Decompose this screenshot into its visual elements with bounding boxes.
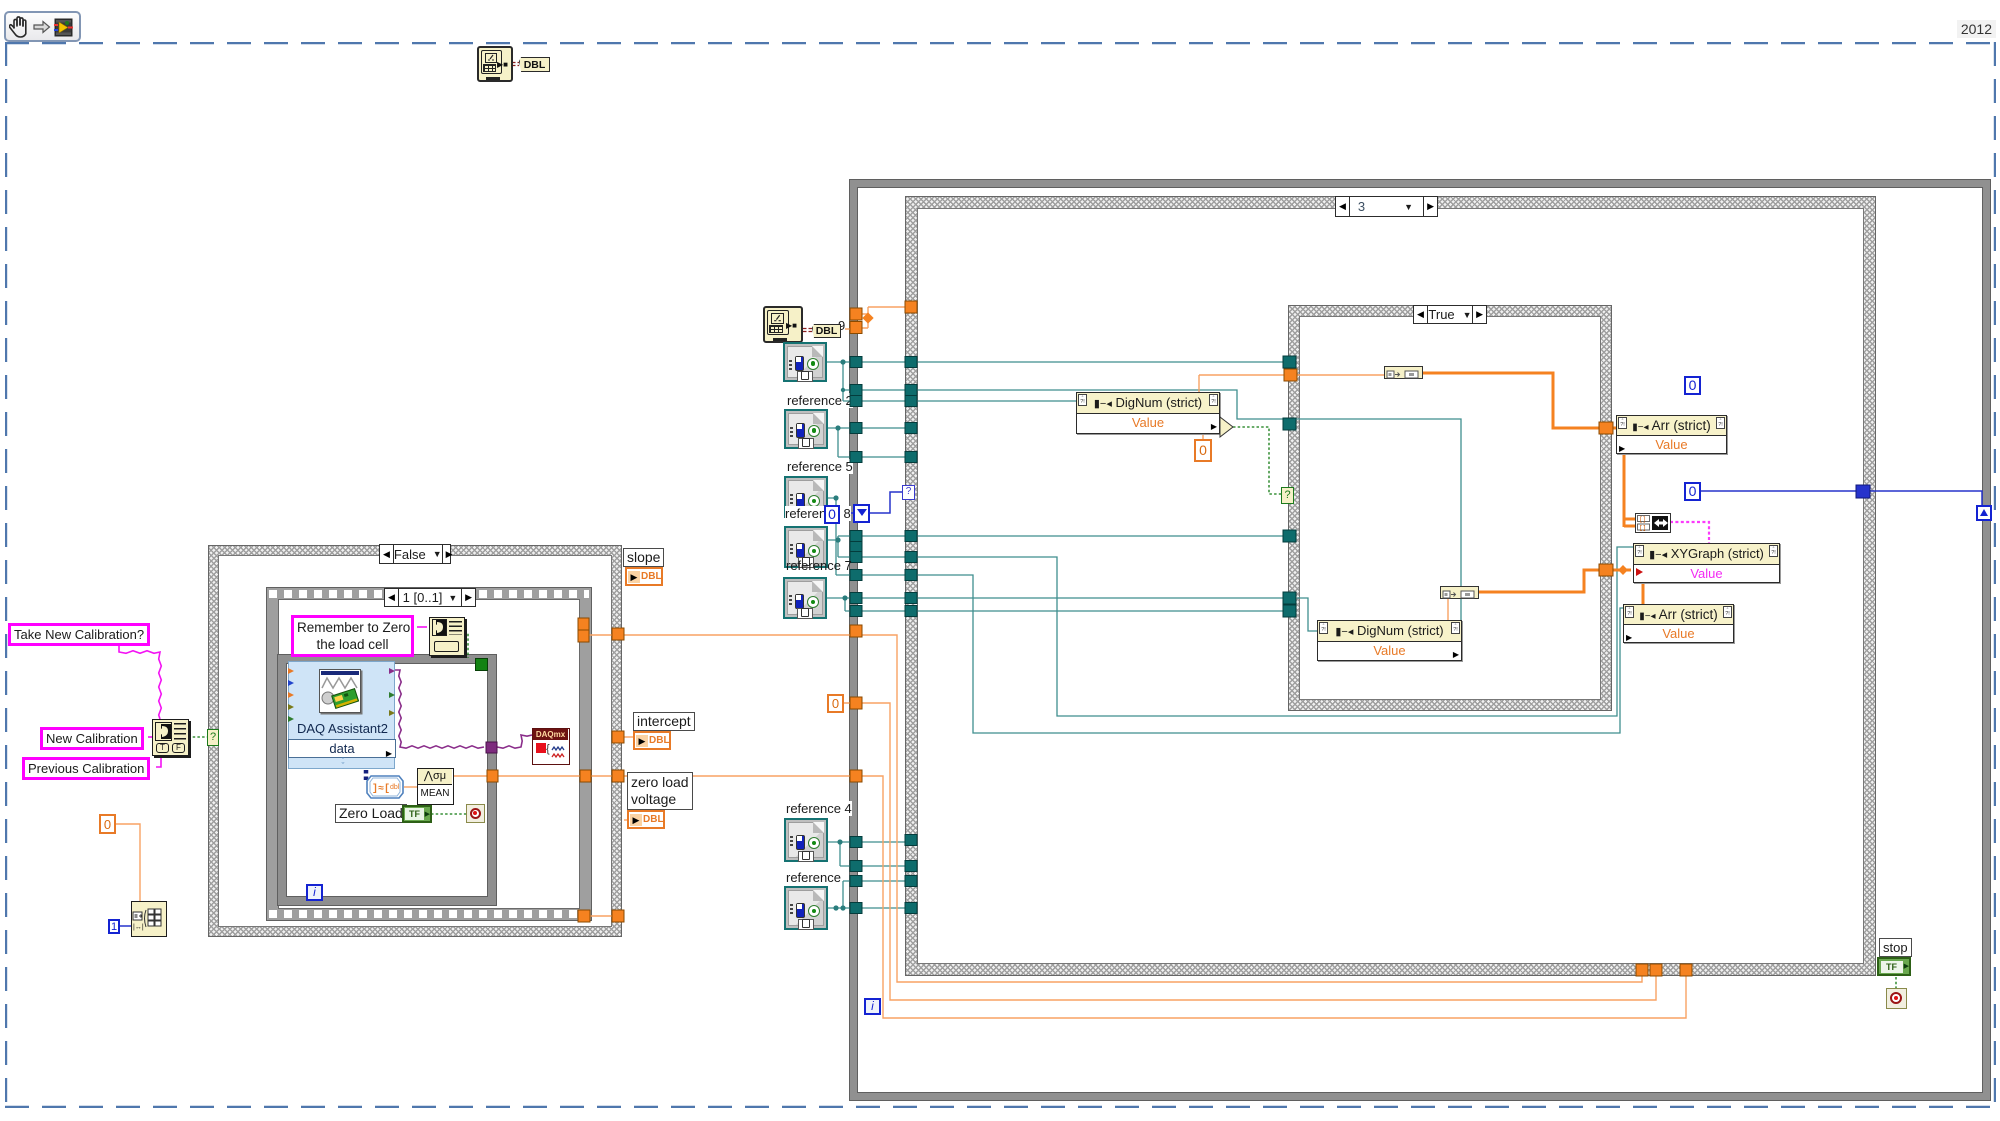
shift register right — [1976, 505, 1992, 521]
tunnel purple task — [486, 742, 497, 753]
wire refnum A branches — [827, 362, 850, 401]
wire zero load voltage long — [454, 776, 1686, 1018]
tunnels teal on case border — [905, 357, 917, 368]
wire thick Arr1 to bundle — [1624, 453, 1635, 527]
arrow red into XYGraph — [1636, 565, 1644, 576]
iteration terminal i (inner loop) — [306, 884, 323, 901]
indicator DBL zero load voltage — [627, 810, 665, 829]
wire green dotted DigNum1 to inner case selector — [1233, 427, 1281, 494]
indicator tag DBL (top) — [519, 57, 550, 72]
property node Arr (strict) 1 — [1616, 415, 1727, 454]
wire zero const long — [843, 703, 1656, 1000]
express VI convert icon (loop) — [763, 306, 803, 343]
wire green dotted zero load TF to stop btn — [431, 813, 466, 815]
indicator tag DBL (loop) — [812, 324, 841, 338]
tunnel ? selector false case — [207, 729, 219, 746]
false case selector — [379, 544, 451, 564]
sequence selector "1 [0..1]" — [384, 588, 476, 607]
wire blue shift register right — [1700, 491, 1982, 506]
boolean TF stop — [1877, 957, 1911, 976]
wire orange express2 to case tunnel — [115, 307, 1686, 1018]
svg-text:]≈[: ]≈[ — [372, 783, 390, 795]
wire blue ring to case selector — [840, 492, 903, 513]
toolbar hand icon — [9, 15, 32, 39]
wire inner-case orange y375 — [1297, 374, 1384, 376]
stop button small (inner loop) — [466, 804, 485, 823]
tunnel ? selector inner case — [1281, 487, 1294, 504]
2012 version label — [1957, 20, 1996, 38]
refnum constant C — [784, 476, 828, 518]
refnum constant E — [783, 577, 827, 619]
coercion triangle DigNum1 — [1219, 416, 1234, 438]
wire pink Take New Calibration — [119, 627, 427, 767]
wire thick array to Arr1 — [1423, 373, 1616, 428]
junction dots teal — [840, 359, 845, 364]
label Previous Calibration — [22, 757, 150, 780]
label New Calibration — [40, 727, 144, 750]
convert from dynamic data icon — [366, 775, 404, 799]
wire DigNum2 thin stub — [1447, 598, 1449, 620]
orange constant 0 (big loop) — [827, 694, 844, 713]
refnum constant G — [784, 886, 828, 930]
wire mean left stub — [404, 786, 417, 788]
refnum constant D — [784, 526, 828, 568]
label zero load voltage — [627, 772, 693, 810]
tunnel blue on case right border — [1856, 485, 1870, 498]
wire refnum C branch — [828, 498, 850, 575]
toolbar arrow icon — [33, 20, 51, 34]
wire refnum long y390 jog — [917, 390, 1461, 620]
wire refnum D branches — [828, 536, 850, 557]
svg-text:{: { — [546, 743, 550, 755]
svg-text:[]: [] — [1639, 516, 1646, 523]
wire refnum G branches — [828, 881, 850, 908]
bundle cluster icon — [1635, 513, 1671, 533]
tunnel ? selector big case — [902, 485, 915, 500]
label reference — [786, 870, 841, 885]
stop label — [1879, 938, 1912, 957]
initialize array icon — [131, 901, 167, 937]
DAQmx clear task icon — [532, 728, 570, 765]
property node DigNum (strict) 1 — [1076, 392, 1220, 434]
label intercept — [633, 712, 695, 731]
wire intercept stub — [624, 736, 633, 738]
boolean TF Zero Load — [402, 805, 432, 823]
MEAN statistics icon — [417, 768, 454, 805]
wire refnum to Arr2 under case — [917, 575, 1624, 733]
blue constant 0 (upper right) — [1684, 376, 1701, 395]
label reference 7 — [786, 558, 852, 573]
wire gap segments between loop and case borders — [862, 362, 905, 908]
label reference 2 — [787, 393, 853, 408]
wire green dotted stop TF to button — [1895, 977, 1897, 988]
wire pink remember label to msg icon — [417, 626, 427, 628]
label Take New Calibration? — [8, 623, 150, 646]
label Remember to Zero the load cell — [291, 615, 414, 657]
wire refnum to XYGraph under case — [917, 547, 1633, 716]
wire refnum B branches — [828, 428, 850, 457]
wire blue const to init array — [119, 491, 1982, 926]
orange constant 0 (DigNum1) — [1194, 439, 1212, 462]
indicator DBL slope — [625, 567, 663, 586]
wire slope long — [588, 635, 1642, 982]
label slope — [623, 548, 664, 567]
toolbar LabVIEW run icon — [54, 18, 73, 37]
stop button round — [1886, 988, 1907, 1009]
wire DigNum1 stubs — [1199, 375, 1284, 439]
display message icon — [429, 617, 465, 656]
wire pink Previous Calibration — [156, 755, 161, 767]
wire dashed dark red DBL 1 — [512, 63, 812, 332]
tunnels teal on inner case border — [1283, 356, 1296, 368]
label Zero Load — [335, 804, 407, 823]
wire refnum to DigNum1 — [917, 400, 1076, 402]
build array icon 2 (inner case) — [1440, 586, 1479, 599]
refnum constant A — [783, 342, 827, 382]
orange constant 0 (left) — [99, 814, 116, 834]
wire pink New Calibration — [148, 736, 152, 738]
toolbar top-left — [4, 11, 81, 42]
wire thick XYGraph to Arr2 — [1642, 582, 1645, 604]
wire refnum long y611 — [917, 610, 1284, 612]
wire refnum long y362 — [917, 361, 1284, 363]
hidden label reference 9 fragment — [838, 318, 845, 333]
DAQ Assistant2 express VI — [288, 661, 395, 769]
wire 0 const to init array — [115, 824, 140, 901]
two button dialog icon — [152, 719, 189, 756]
constant 0 blue (shift register init) — [824, 505, 840, 524]
wire refnum F branches — [828, 842, 850, 866]
label reference 8 — [785, 506, 851, 521]
wire green dotted select to false case — [188, 427, 1896, 988]
refnum constant B — [784, 409, 828, 449]
wire refnum long y598 — [917, 597, 1284, 599]
label reference 4 — [786, 801, 852, 816]
property node Arr (strict) 2 — [1623, 604, 1734, 643]
blue constant 1 — [108, 919, 120, 934]
big case selector "3" — [1335, 196, 1438, 217]
iteration terminal i (big loop) — [864, 998, 881, 1015]
wire dashed dark red DBL 2 — [803, 329, 812, 332]
label reference 5 — [787, 459, 853, 474]
indicator DBL intercept — [633, 731, 671, 750]
wire green dotted display msg to loop terminal — [464, 633, 468, 658]
junction dots orange — [862, 312, 1628, 575]
property node XYGraph (strict) — [1633, 543, 1780, 583]
express VI convert icon (top) — [477, 46, 513, 82]
wire thick buildarray2 to XYGraph — [1478, 570, 1631, 592]
wire refnum long y536 — [917, 535, 1284, 537]
wire zlv DBL stub — [624, 819, 627, 821]
inner case selector "True" — [1413, 305, 1487, 324]
wire pink dotted bundle to XYGraph value — [1670, 522, 1709, 543]
build array icon 1 (inner case) — [1384, 366, 1423, 379]
shift register left — [853, 504, 870, 523]
wire seq bottom stub — [590, 915, 612, 917]
wire refnum inner L to DigNum2 — [1297, 598, 1317, 631]
wire refnum E branches — [827, 598, 850, 611]
svg-text:[]: [] — [1639, 525, 1646, 532]
wire navy dynamic data — [364, 757, 369, 782]
svg-text:|↔|: |↔| — [133, 924, 144, 931]
property node DigNum (strict) 2 — [1317, 620, 1462, 661]
refnum constant F — [784, 818, 828, 862]
svg-text:dbl: dbl — [390, 784, 400, 791]
tunnels orange — [487, 301, 1692, 976]
blue constant 0 (lower right) — [1684, 482, 1701, 501]
wire purple DAQ task squiggle — [395, 670, 532, 748]
tunnels teal on loop border — [850, 356, 1296, 914]
while loop condition terminal (green) — [475, 658, 488, 671]
